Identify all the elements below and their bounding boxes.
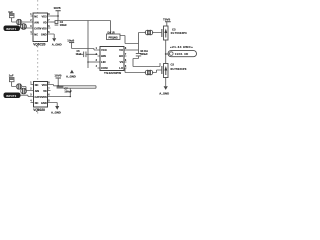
svg-text:T5V5: T5V5 (163, 17, 171, 21)
svg-text:INPUT2: INPUT2 (6, 94, 17, 98)
svg-text:100uF: 100uF (64, 89, 72, 93)
svg-text:«21.34 9WD»: «21.34 9WD» (170, 45, 193, 49)
svg-text:10u5: 10u5 (67, 38, 74, 42)
svg-text:AIN: AIN (34, 20, 39, 24)
svg-text:C2: C2 (171, 63, 175, 67)
svg-text:100uF: 100uF (140, 52, 148, 56)
svg-text:COM: COM (101, 66, 108, 70)
svg-text:RLT5023P3: RLT5023P3 (171, 31, 187, 35)
svg-text:GND: GND (41, 32, 47, 36)
svg-text:HIN: HIN (101, 54, 106, 58)
svg-text:100nF: 100nF (60, 24, 67, 27)
svg-text:10uF: 10uF (76, 53, 82, 56)
svg-text:NC: NC (35, 83, 39, 87)
svg-text:CATN: CATN (34, 26, 41, 30)
svg-text:NC: NC (34, 32, 38, 36)
svg-text:NC: NC (35, 101, 39, 105)
svg-text:VD: VD (43, 20, 47, 24)
svg-text:PRQNG: PRQNG (109, 36, 118, 39)
svg-text:A_GND: A_GND (51, 110, 61, 114)
svg-text:VQ6C20: VQ6C20 (33, 42, 45, 46)
svg-text:10V5: 10V5 (54, 6, 61, 10)
svg-text:NC: NC (34, 14, 38, 18)
svg-text:DA 1R: DA 1R (108, 31, 115, 34)
svg-text:1uF: 1uF (9, 74, 14, 78)
svg-text:RLT5023P3: RLT5023P3 (171, 67, 187, 71)
svg-text:AIN: AIN (35, 89, 40, 93)
svg-text:VQ6020: VQ6020 (33, 108, 45, 112)
svg-text:VD5: VD5 (42, 26, 48, 30)
svg-text:VD3: VD3 (42, 14, 48, 18)
svg-text:GND: GND (41, 101, 47, 105)
svg-text:C3: C3 (172, 27, 176, 31)
svg-text:1uF: 1uF (8, 10, 13, 14)
svg-text:VD: VD (43, 89, 47, 93)
svg-text:CATN: CATN (35, 95, 42, 99)
svg-text:INPUT1: INPUT1 (6, 27, 17, 31)
svg-text:A_GND: A_GND (52, 42, 62, 46)
svg-text:0901 3D: 0901 3D (175, 52, 189, 56)
svg-text:VS: VS (119, 60, 123, 64)
svg-text:TS4226PW: TS4226PW (104, 71, 121, 75)
svg-text:10V0: 10V0 (54, 73, 61, 77)
svg-text:A_GND: A_GND (159, 91, 169, 95)
svg-text:VD5: VD5 (42, 95, 48, 99)
svg-text:A_GND: A_GND (66, 74, 76, 78)
svg-text:VCC: VCC (101, 48, 107, 52)
svg-text:VD3: VD3 (42, 83, 48, 87)
svg-text:LIN: LIN (101, 60, 106, 64)
